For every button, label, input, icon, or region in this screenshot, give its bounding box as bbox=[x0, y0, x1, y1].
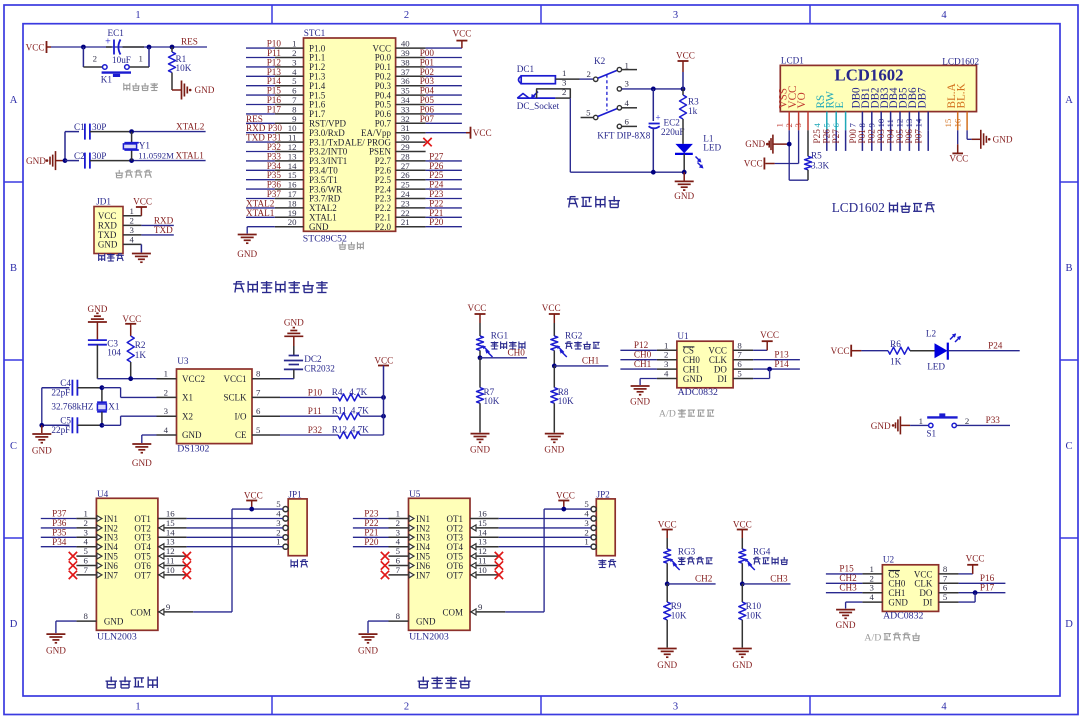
capacitor C4 22pF bbox=[42, 378, 102, 397]
svg-text:4.7K: 4.7K bbox=[351, 406, 369, 416]
svg-text:A: A bbox=[1065, 95, 1073, 106]
wire VCC to R6 bbox=[861, 350, 888, 352]
wire crystal left rail (C4-C5) bbox=[39, 388, 44, 428]
svg-text:X2: X2 bbox=[182, 411, 193, 421]
svg-text:5: 5 bbox=[737, 369, 742, 379]
ground (U5) bbox=[358, 634, 378, 656]
svg-text:R6: R6 bbox=[890, 339, 901, 349]
power port VCC (STC pin 31 EA) bbox=[426, 127, 492, 139]
wire CH2 (U2 pin2) bbox=[826, 573, 863, 583]
svg-text:2: 2 bbox=[965, 416, 969, 426]
svg-text:10K: 10K bbox=[746, 610, 762, 620]
label xiazaikou (download port) bbox=[99, 253, 124, 261]
wire/net RXD P30 (STC pin 10) bbox=[246, 123, 282, 133]
svg-text:LED: LED bbox=[703, 143, 721, 153]
svg-text:8: 8 bbox=[396, 611, 401, 621]
adc U1 pins bbox=[657, 340, 753, 384]
label dianji (motor JP2) bbox=[598, 559, 616, 567]
svg-text:GND: GND bbox=[745, 139, 765, 149]
svg-text:GND: GND bbox=[309, 222, 329, 232]
label anjian fuwei (reset note) bbox=[124, 83, 158, 91]
wire/net P10 (STC pin 1) bbox=[246, 39, 281, 49]
mcu U? STC1 STC89C52 body bbox=[303, 28, 396, 245]
svg-text:11.0592M: 11.0592M bbox=[138, 150, 174, 160]
svg-text:RG2: RG2 bbox=[565, 330, 583, 340]
svg-text:E: E bbox=[834, 102, 846, 109]
power port GND (reset R1) bbox=[172, 81, 215, 100]
svg-text:9: 9 bbox=[478, 602, 483, 612]
wire/net P01 (STC pin 38) bbox=[420, 57, 462, 67]
power port VCC (R2) bbox=[122, 314, 141, 336]
svg-text:VCC: VCC bbox=[133, 197, 152, 207]
svg-text:RG4: RG4 bbox=[753, 546, 771, 556]
svg-text:10: 10 bbox=[478, 565, 487, 575]
svg-text:10K: 10K bbox=[558, 396, 574, 406]
wire K2 pin3 to VCC rail bbox=[622, 87, 686, 92]
svg-text:U1: U1 bbox=[677, 331, 689, 341]
wire U4 OT1 to JP1 pin4 bbox=[187, 518, 283, 520]
svg-text:CH0: CH0 bbox=[508, 348, 526, 358]
svg-text:ULN2003: ULN2003 bbox=[409, 631, 449, 642]
svg-text:XTAL1: XTAL1 bbox=[246, 208, 275, 218]
power port VCC (L2) bbox=[831, 345, 862, 357]
svg-text:GND: GND bbox=[732, 660, 752, 670]
wire U4 OT3 to JP1 pin2 bbox=[187, 536, 283, 538]
svg-text:VCC: VCC bbox=[831, 346, 850, 356]
svg-text:P33: P33 bbox=[986, 415, 1001, 425]
wire P16 (U2 pin7) bbox=[959, 573, 1006, 583]
svg-text:GND: GND bbox=[871, 421, 891, 431]
svg-text:COM: COM bbox=[130, 607, 151, 617]
svg-text:4: 4 bbox=[869, 592, 874, 602]
power port VCC (RG4) bbox=[733, 520, 752, 549]
svg-text:10uF: 10uF bbox=[112, 55, 131, 65]
svg-text:VCC: VCC bbox=[374, 356, 393, 366]
wire/net P05 (STC pin 34) bbox=[420, 95, 462, 105]
svg-text:2: 2 bbox=[562, 87, 566, 97]
svg-text:21: 21 bbox=[401, 217, 410, 227]
resistor R1 10K bbox=[169, 47, 192, 90]
resistor R9 10K bbox=[664, 584, 687, 648]
svg-text:4: 4 bbox=[130, 235, 135, 245]
svg-text:7: 7 bbox=[396, 565, 401, 575]
svg-text:GND: GND bbox=[888, 598, 908, 608]
switch K2 KFT DIP-8X8 bbox=[581, 56, 651, 140]
svg-text:1: 1 bbox=[139, 54, 143, 64]
power port GND (S1) bbox=[871, 416, 910, 434]
svg-text:2: 2 bbox=[587, 69, 591, 79]
svg-text:X1: X1 bbox=[108, 402, 120, 412]
svg-text:VCC: VCC bbox=[733, 520, 752, 530]
wire GND (STC pin 20) bbox=[247, 227, 275, 234]
svg-text:DI: DI bbox=[717, 374, 727, 384]
svg-text:OT7: OT7 bbox=[447, 570, 464, 580]
svg-text:B: B bbox=[10, 263, 17, 274]
svg-text:3: 3 bbox=[130, 225, 135, 235]
svg-text:VCC: VCC bbox=[949, 153, 968, 163]
capacitor C5 22pF bbox=[42, 415, 102, 435]
svg-text:VCC: VCC bbox=[658, 520, 677, 530]
wire/net P34 (STC pin 14) bbox=[246, 161, 281, 171]
adc U2 ADC0832 body bbox=[882, 555, 938, 622]
photoresistor RG3 bbox=[664, 546, 696, 570]
svg-text:4: 4 bbox=[164, 425, 169, 435]
svg-text:VCC: VCC bbox=[473, 128, 492, 138]
wire/net P33 (STC pin 13) bbox=[246, 151, 281, 161]
svg-text:20: 20 bbox=[288, 217, 297, 227]
svg-text:VCC: VCC bbox=[122, 314, 141, 324]
label guangmin dianzu (RG3) bbox=[678, 557, 713, 565]
label guangmin dianzu (RG4) bbox=[753, 557, 788, 565]
svg-text:IN7: IN7 bbox=[416, 570, 430, 580]
wire LCD pin16 to GND bbox=[967, 130, 972, 139]
svg-text:B: B bbox=[1065, 263, 1072, 274]
svg-text:P11: P11 bbox=[308, 406, 322, 416]
lcd module LCD1 body bbox=[780, 55, 979, 111]
svg-text:P20: P20 bbox=[429, 217, 444, 227]
svg-text:GND: GND bbox=[358, 646, 378, 656]
svg-text:30P: 30P bbox=[92, 151, 106, 161]
svg-text:U2: U2 bbox=[883, 555, 895, 565]
label A/D zhuanhuan dianlu (U1) bbox=[659, 409, 714, 420]
power port VCC (pull-ups) bbox=[374, 356, 393, 435]
svg-text:GND: GND bbox=[993, 134, 1013, 144]
wire RXD bbox=[141, 224, 173, 226]
no-connect X (U5 OT6) bbox=[495, 561, 503, 569]
wire C5 row to U3 pin3 bbox=[102, 416, 157, 425]
wire/net XTAL1 (STC pin 19) bbox=[246, 208, 275, 218]
svg-text:1: 1 bbox=[135, 10, 140, 21]
no-connect X (STC pin 30) bbox=[423, 138, 431, 146]
wire C4 row to U3 pin2 bbox=[102, 388, 157, 398]
resistor R12 4.7K bbox=[332, 424, 384, 438]
wire VCC rail to JP1 pin5 and COM bbox=[193, 507, 283, 612]
wire CH2 node bbox=[665, 563, 716, 586]
svg-text:C: C bbox=[10, 441, 17, 452]
wire/net P15 (STC pin 6) bbox=[246, 86, 281, 96]
pushbutton S1 bbox=[919, 413, 970, 438]
svg-text:DC_Socket: DC_Socket bbox=[517, 101, 560, 111]
ground (JD1 pin4) bbox=[132, 244, 151, 262]
resistor R2 1K bbox=[127, 336, 146, 379]
svg-text:R5: R5 bbox=[811, 151, 822, 161]
wire P13 (U1 pin7) bbox=[753, 349, 800, 359]
resistor R10 10K bbox=[739, 584, 762, 648]
svg-text:VCC: VCC bbox=[744, 159, 763, 169]
wire GND to S1 bbox=[910, 424, 928, 426]
svg-text:A: A bbox=[10, 95, 18, 106]
svg-text:R11: R11 bbox=[332, 406, 347, 416]
svg-text:GND: GND bbox=[836, 620, 856, 630]
svg-text:8: 8 bbox=[83, 611, 88, 621]
mcu STC1 pin names and numbers bbox=[275, 39, 426, 232]
svg-text:14: 14 bbox=[913, 118, 923, 127]
wire/net P17 (STC pin 8) bbox=[246, 104, 281, 114]
no-connect X (U5 OT5) bbox=[495, 552, 503, 560]
no-connect X (U4 IN5) bbox=[69, 552, 77, 560]
wire P20 (U5 IN4) bbox=[353, 537, 389, 547]
svg-text:3: 3 bbox=[793, 123, 803, 128]
led L1 bbox=[675, 134, 722, 172]
svg-text:3: 3 bbox=[625, 79, 630, 89]
svg-text:VCC2: VCC2 bbox=[182, 374, 205, 384]
svg-text:CE: CE bbox=[235, 430, 247, 440]
ground (R7) bbox=[468, 303, 487, 336]
net label RES bbox=[181, 37, 198, 47]
wire P22 (U5 IN2) bbox=[353, 518, 389, 528]
wire LCD pin1 VSS to GND rail bbox=[787, 130, 808, 180]
no-connect X (U4 OT7) bbox=[183, 571, 191, 579]
wire/net TXD P31 (STC pin 11) bbox=[246, 133, 282, 143]
rtc U3 DS1302 body bbox=[177, 356, 253, 455]
photoresistor RG4 bbox=[739, 546, 771, 570]
wire U4 OT4 to JP1 pin1 bbox=[187, 546, 283, 548]
svg-text:P07: P07 bbox=[420, 114, 435, 124]
wire GND (U5 pin8) bbox=[368, 621, 389, 633]
power port VCC (JD1) bbox=[133, 197, 152, 216]
svg-text:GND: GND bbox=[26, 156, 46, 166]
svg-text:GND: GND bbox=[182, 430, 202, 440]
svg-text:VCC: VCC bbox=[676, 51, 695, 61]
capacitor EC2 220uF bbox=[649, 89, 685, 172]
svg-text:P32: P32 bbox=[308, 425, 323, 435]
svg-text:VCC1: VCC1 bbox=[223, 374, 246, 384]
resistor R4 4.7K bbox=[332, 387, 386, 401]
capacitor C1 30P bbox=[74, 122, 132, 140]
capacitor C3 104 bbox=[88, 339, 121, 379]
wire/net P23 (STC pin 24) bbox=[426, 189, 462, 199]
ground (R9) bbox=[657, 649, 677, 671]
power port VCC (JP2) bbox=[556, 490, 575, 509]
ground (U3 pin4) bbox=[132, 444, 152, 468]
title bujin dianji (stepper motor U4) bbox=[106, 677, 158, 688]
wire P36 (U4 IN2) bbox=[41, 518, 77, 528]
wire CH1 (U1 pin3) bbox=[620, 359, 657, 369]
svg-text:GND: GND bbox=[630, 397, 650, 407]
power port VCC (JP1) bbox=[244, 490, 263, 509]
power port GND (DC2) bbox=[284, 318, 304, 346]
no-connect X (U5 IN7) bbox=[381, 571, 389, 579]
svg-text:2: 2 bbox=[404, 702, 409, 713]
svg-text:1: 1 bbox=[276, 537, 280, 547]
wire DC2 to U3 pin8 bbox=[280, 378, 294, 380]
svg-text:10K: 10K bbox=[484, 396, 500, 406]
wire L2 to P24 bbox=[948, 341, 1020, 351]
svg-text:2: 2 bbox=[404, 10, 409, 21]
wire/net P25 (STC pin 26) bbox=[426, 170, 462, 180]
svg-text:GND: GND bbox=[46, 646, 66, 656]
svg-text:30P: 30P bbox=[92, 122, 106, 132]
svg-text:IN7: IN7 bbox=[104, 570, 118, 580]
svg-text:CH1: CH1 bbox=[634, 359, 652, 369]
svg-text:VCC: VCC bbox=[453, 29, 472, 39]
wire P21 (U5 IN3) bbox=[353, 528, 389, 538]
wire U3 pin7 P10 with pull-up bbox=[280, 387, 338, 397]
net label TXD bbox=[154, 225, 173, 235]
battery DC2 CR2032 bbox=[284, 346, 335, 379]
wire GND (U4 pin8) bbox=[56, 621, 77, 633]
connector DC1 DC_Socket bbox=[517, 64, 580, 111]
svg-text:GND: GND bbox=[683, 374, 703, 384]
power port GND (crystal) bbox=[26, 151, 65, 170]
svg-text:DC1: DC1 bbox=[517, 64, 535, 74]
wire R6 to L2 bbox=[910, 350, 935, 352]
svg-text:X1: X1 bbox=[182, 393, 193, 403]
wire GND (U1 pin4) bbox=[640, 379, 657, 386]
capacitor EC1 10uF bbox=[105, 28, 144, 65]
svg-text:XTAL2: XTAL2 bbox=[176, 122, 205, 132]
wire/net P37 (STC pin 17) bbox=[246, 189, 281, 199]
lcd pin stubs and numbers bbox=[774, 112, 967, 131]
svg-text:R4: R4 bbox=[332, 387, 343, 397]
svg-text:K1: K1 bbox=[101, 75, 113, 85]
svg-text:VCC: VCC bbox=[244, 490, 263, 500]
svg-text:COM: COM bbox=[442, 607, 463, 617]
power port VCC (power circuit) bbox=[676, 51, 695, 89]
svg-text:220uF: 220uF bbox=[661, 127, 685, 137]
lcd pin names (rotated) bbox=[777, 83, 967, 108]
svg-text:D: D bbox=[1065, 619, 1073, 630]
power port VCC (STC pin 40) bbox=[426, 29, 472, 49]
svg-text:P14: P14 bbox=[774, 359, 789, 369]
wire P34 (U4 IN4) bbox=[41, 537, 77, 547]
svg-text:5: 5 bbox=[586, 108, 591, 118]
wire/net P07 (STC pin 32) bbox=[420, 114, 462, 124]
wire P37 (U4 IN1) bbox=[41, 509, 77, 519]
svg-text:XTAL1: XTAL1 bbox=[176, 150, 205, 160]
svg-text:1: 1 bbox=[135, 702, 140, 713]
svg-text:STC1: STC1 bbox=[304, 28, 326, 38]
ground (power circuit) bbox=[674, 172, 694, 201]
title bujin dianji (stepper motor U5) bbox=[418, 677, 471, 688]
svg-text:10: 10 bbox=[166, 565, 175, 575]
driver U5 ULN2003 body bbox=[409, 489, 471, 643]
svg-text:VCC: VCC bbox=[26, 42, 45, 52]
wire XTAL2 bbox=[129, 129, 205, 134]
ground (crystal rail) bbox=[32, 425, 52, 455]
svg-text:6: 6 bbox=[831, 123, 841, 128]
svg-text:LCD1602: LCD1602 bbox=[835, 65, 904, 84]
wire LCD pin15 to VCC bbox=[957, 130, 959, 144]
wire U5 OT2 to JP2 pin3 bbox=[499, 527, 591, 529]
svg-text:RG1: RG1 bbox=[491, 330, 509, 340]
svg-text:CH3: CH3 bbox=[770, 574, 788, 584]
svg-text:6: 6 bbox=[625, 116, 630, 126]
svg-text:+: + bbox=[655, 113, 660, 123]
svg-text:ADC0832: ADC0832 bbox=[678, 387, 718, 398]
svg-text:C1: C1 bbox=[74, 122, 85, 132]
svg-text:A/D: A/D bbox=[864, 632, 881, 643]
wire/net P21 (STC pin 22) bbox=[426, 208, 462, 218]
wire U4 OT2 to JP1 pin3 bbox=[187, 527, 283, 529]
wire/net P20 (STC pin 21) bbox=[426, 217, 462, 227]
svg-text:R3: R3 bbox=[688, 97, 699, 107]
svg-text:CR2032: CR2032 bbox=[304, 364, 335, 374]
ground (U4) bbox=[46, 634, 66, 656]
wire TXD bbox=[141, 234, 173, 236]
no-connect X (U4 OT6) bbox=[183, 561, 191, 569]
svg-text:TXD: TXD bbox=[154, 225, 173, 235]
wire S1 to P33 bbox=[956, 415, 1010, 425]
svg-text:R12: R12 bbox=[332, 424, 348, 434]
svg-text:U5: U5 bbox=[409, 489, 421, 499]
wire P14 (U1 pins 6+5 tied) bbox=[753, 359, 800, 379]
svg-text:P20: P20 bbox=[364, 537, 379, 547]
svg-text:TXD: TXD bbox=[98, 230, 117, 240]
svg-text:CH1: CH1 bbox=[582, 356, 600, 366]
power port VCC (reset) bbox=[26, 41, 51, 53]
wire U3 pin4 to ground bbox=[142, 435, 157, 443]
svg-text:9: 9 bbox=[166, 602, 171, 612]
svg-text:P27: P27 bbox=[831, 129, 841, 144]
svg-text:GND: GND bbox=[132, 458, 152, 468]
svg-text:10K: 10K bbox=[671, 610, 687, 620]
svg-text:RXD: RXD bbox=[98, 221, 118, 231]
svg-text:U4: U4 bbox=[97, 489, 109, 499]
connector JP1 pin circles bbox=[276, 499, 288, 549]
svg-text:VCC: VCC bbox=[966, 554, 985, 564]
rtc U3 pins bbox=[157, 369, 281, 441]
power port VCC (U2 pin8) bbox=[959, 554, 985, 574]
svg-text:1: 1 bbox=[164, 369, 168, 379]
wire/net P02 (STC pin 37) bbox=[420, 67, 462, 77]
svg-text:KFT DIP-8X8: KFT DIP-8X8 bbox=[597, 130, 651, 140]
svg-text:5: 5 bbox=[256, 425, 261, 435]
svg-text:7: 7 bbox=[83, 565, 88, 575]
svg-text:16: 16 bbox=[952, 118, 962, 127]
wire XTAL1 bbox=[129, 158, 205, 163]
title danpianji zuixiao xitong (MCU minimum system) bbox=[233, 281, 327, 292]
wire CH0 (U1 pin2) bbox=[620, 349, 657, 359]
svg-text:2: 2 bbox=[93, 54, 97, 64]
power port VCC (RG3) bbox=[658, 520, 677, 549]
svg-text:1K: 1K bbox=[135, 350, 147, 360]
lcd net labels P25-P27 P00-P07 (rotated) bbox=[812, 129, 928, 151]
svg-text:GND: GND bbox=[657, 660, 677, 670]
net label RXD bbox=[154, 216, 174, 226]
wire U5 OT1 to JP2 pin4 bbox=[499, 518, 591, 520]
svg-text:EC2: EC2 bbox=[664, 118, 681, 128]
svg-text:VCC: VCC bbox=[468, 303, 487, 313]
wire P12 (U1 pin1) bbox=[620, 340, 657, 350]
svg-text:32.768kHZ: 32.768kHZ bbox=[51, 401, 93, 411]
svg-text:1K: 1K bbox=[890, 357, 902, 367]
power port VCC (U1 pin8) bbox=[753, 330, 779, 350]
wire U5 OT3 to JP2 pin2 bbox=[499, 536, 591, 538]
net label XTAL2 bbox=[176, 122, 205, 132]
svg-text:GND: GND bbox=[104, 617, 124, 627]
svg-text:5: 5 bbox=[943, 592, 948, 602]
label A/D zhuanhuan dianlu (U2) bbox=[864, 632, 920, 643]
svg-text:U3: U3 bbox=[177, 356, 189, 366]
svg-text:DS1302: DS1302 bbox=[177, 444, 209, 455]
svg-text:Y1: Y1 bbox=[139, 140, 151, 150]
wire VCC rail to JP2 pin5 and COM bbox=[505, 507, 591, 612]
svg-text:4: 4 bbox=[941, 10, 947, 21]
connector JP1 body bbox=[288, 490, 307, 556]
svg-text:A/D: A/D bbox=[659, 409, 676, 420]
svg-text:CH3: CH3 bbox=[839, 582, 857, 592]
svg-text:GND: GND bbox=[237, 249, 257, 259]
wire P23 (U5 IN1) bbox=[353, 509, 389, 519]
wire/net P00 (STC pin 39) bbox=[420, 48, 462, 58]
capacitor C2 30P bbox=[74, 151, 132, 169]
svg-text:10K: 10K bbox=[176, 63, 192, 73]
connector JD1 bbox=[94, 196, 141, 253]
svg-text:R2: R2 bbox=[135, 340, 146, 350]
svg-text:3: 3 bbox=[673, 702, 678, 713]
svg-text:22pF: 22pF bbox=[51, 425, 70, 435]
